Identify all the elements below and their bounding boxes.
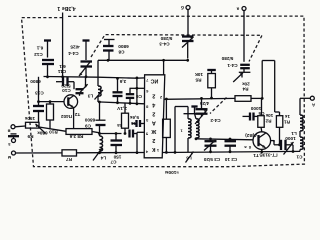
svg-text:5/280: 5/280 bbox=[160, 36, 172, 41]
svg-text:5,6к: 5,6к bbox=[129, 115, 139, 120]
coupling capacitor 68 bbox=[117, 123, 137, 137]
wire T2 base bbox=[37, 100, 64, 103]
rail right of IC bbox=[162, 151, 300, 152]
IC pin numbers bbox=[145, 78, 162, 155]
terminal left 1 bbox=[7, 125, 15, 134]
note 100mV bbox=[165, 170, 179, 175]
inductor L1 bbox=[291, 115, 303, 137]
svg-text:R2: R2 bbox=[265, 119, 271, 124]
svg-text:Т1: Т1 bbox=[253, 153, 259, 158]
terminal a top bbox=[236, 6, 246, 11]
wire to R7 bbox=[16, 152, 63, 154]
wire into IC top bbox=[163, 60, 165, 75]
svg-text:20к: 20к bbox=[242, 82, 250, 87]
svg-text:R7: R7 bbox=[66, 157, 72, 162]
IF transformer primary bbox=[174, 107, 191, 154]
resistor right of IC bbox=[163, 98, 171, 154]
resistor R7 bbox=[62, 150, 77, 162]
svg-text:б: б bbox=[181, 5, 184, 11]
wire supply down bbox=[62, 13, 64, 77]
resistor R6 bbox=[122, 103, 139, 133]
terminal left 3 bbox=[7, 151, 15, 160]
wire osc row bbox=[100, 133, 122, 135]
svg-text:6800: 6800 bbox=[84, 118, 95, 123]
IF transformer secondary bbox=[184, 107, 202, 141]
terminal A antenna bbox=[310, 96, 315, 107]
trimmer C4-1 bbox=[221, 56, 250, 82]
svg-text:С10: С10 bbox=[62, 88, 71, 93]
svg-text:С4-4: С4-4 bbox=[68, 51, 79, 56]
svg-text:68: 68 bbox=[117, 123, 122, 128]
svg-text:м: м bbox=[7, 155, 11, 160]
capacitor C7 bbox=[110, 132, 122, 164]
svg-text:С9: С9 bbox=[85, 124, 91, 129]
wire base row T1 bbox=[196, 139, 253, 140]
svg-text:10К: 10К bbox=[195, 72, 203, 77]
wire R9 to R8 bbox=[39, 127, 66, 131]
svg-text:R8 3,6: R8 3,6 bbox=[69, 134, 83, 139]
resistor R5 bbox=[195, 70, 216, 99]
label (V2)4 bbox=[245, 133, 257, 138]
svg-text:Т2: Т2 bbox=[74, 112, 80, 117]
wire to R9 bbox=[15, 125, 26, 128]
potentiometer R9 bbox=[24, 116, 45, 139]
svg-text:С4-2: С4-2 bbox=[210, 118, 221, 123]
capacitor C9 electrolytic bbox=[84, 102, 105, 135]
svg-text:С2 10: С2 10 bbox=[224, 157, 237, 162]
transformer tune arrow bbox=[186, 152, 194, 163]
svg-text:ИС: ИС bbox=[151, 78, 159, 84]
node bus joints bbox=[46, 75, 87, 78]
svg-text:С11: С11 bbox=[57, 69, 66, 74]
svg-text:5/20: 5/20 bbox=[61, 84, 71, 89]
wire upper bus bbox=[98, 59, 189, 77]
svg-text:R9: R9 bbox=[27, 134, 33, 139]
wire R7 to rail bbox=[77, 152, 100, 154]
trimmer C3 bbox=[203, 138, 220, 163]
svg-text:ГТ-313Б: ГТ-313Б bbox=[259, 153, 278, 158]
svg-text:150к: 150к bbox=[24, 116, 35, 121]
capacitor C8 bbox=[103, 40, 129, 61]
resistor R2 bbox=[258, 98, 273, 131]
svg-text:6,1: 6,1 bbox=[59, 64, 66, 69]
transistor T2 bbox=[64, 95, 78, 129]
transistor T1 bbox=[253, 132, 271, 153]
svg-text:L3: L3 bbox=[87, 94, 93, 99]
ground terminal left bbox=[8, 134, 19, 139]
inductor L3 bbox=[87, 77, 103, 102]
trimmer C4-3 bbox=[159, 36, 193, 59]
IC box K2ZhA242 bbox=[144, 75, 165, 158]
svg-text:С4-3: С4-3 bbox=[159, 42, 170, 47]
svg-text:150: 150 bbox=[113, 155, 121, 160]
svg-text:L1: L1 bbox=[291, 131, 297, 136]
wire IC out right bbox=[164, 97, 235, 100]
tie bar into IC bbox=[130, 77, 145, 104]
trimmer C10 bbox=[61, 77, 88, 96]
capacitor bypass A bbox=[113, 77, 127, 103]
svg-text:4/25: 4/25 bbox=[70, 45, 80, 50]
svg-text:С4-1: С4-1 bbox=[227, 63, 238, 68]
gang dashed link line bbox=[91, 35, 262, 114]
svg-text:R1: R1 bbox=[284, 120, 290, 125]
wire terminal a down bbox=[243, 11, 245, 62]
svg-text:≈100м: ≈100м bbox=[165, 170, 179, 175]
resistor R1 bbox=[276, 114, 290, 146]
svg-text:R5: R5 bbox=[195, 78, 201, 83]
svg-text:5/280: 5/280 bbox=[221, 56, 233, 61]
svg-text:6800: 6800 bbox=[118, 44, 129, 49]
svg-text:С12: С12 bbox=[34, 52, 43, 57]
svg-text:П402: П402 bbox=[61, 114, 73, 119]
terminal left 2 bbox=[8, 139, 16, 148]
svg-text:С13: С13 bbox=[35, 91, 44, 96]
wire lower bus bbox=[44, 77, 145, 79]
label T1 GT-313 bbox=[244, 139, 278, 158]
small capacitor at pin3 bbox=[132, 120, 144, 127]
wire terminal b down bbox=[187, 10, 189, 37]
svg-text:3,6: 3,6 bbox=[119, 79, 126, 84]
svg-text:R4: R4 bbox=[242, 86, 248, 91]
capacitor C2 bbox=[224, 138, 237, 162]
svg-text:а: а bbox=[236, 6, 239, 11]
resistor R10 bbox=[37, 102, 58, 136]
label T2 P402 bbox=[61, 112, 81, 119]
svg-text:1к: 1к bbox=[284, 114, 290, 119]
wire antenna to L1 bbox=[300, 98, 310, 115]
resistor R4 bbox=[235, 61, 280, 116]
svg-text:1000: 1000 bbox=[250, 106, 261, 111]
capacitor C11 bbox=[56, 64, 74, 89]
capacitor C6 bbox=[126, 88, 142, 103]
wire rail to IC pin4 bbox=[98, 151, 144, 154]
svg-text:в: в bbox=[7, 129, 10, 134]
svg-text:С6: С6 bbox=[136, 94, 142, 99]
terminal b top bbox=[181, 5, 190, 11]
svg-text:С1: С1 bbox=[296, 155, 302, 160]
wire to IC pin8 bbox=[98, 101, 144, 106]
svg-text:С8: С8 bbox=[118, 50, 124, 55]
inductor L4 variable bbox=[93, 134, 106, 161]
trimmer C1 bbox=[271, 136, 303, 160]
supply label 4,3V bbox=[57, 5, 75, 11]
inductor L2 bbox=[300, 137, 303, 151]
svg-text:С7: С7 bbox=[110, 160, 116, 165]
capacitor C12 bbox=[34, 46, 54, 77]
trimmer C4-4 bbox=[68, 45, 92, 77]
svg-text:6,1: 6,1 bbox=[36, 46, 43, 51]
svg-text:R10: R10 bbox=[49, 130, 58, 135]
ground C4-4 bbox=[83, 41, 90, 61]
ground C12 bbox=[44, 41, 51, 58]
capacitor C5 feedthrough bbox=[243, 106, 265, 121]
capacitor C13 bbox=[30, 77, 44, 123]
svg-text:L4: L4 bbox=[100, 156, 106, 161]
svg-text:10к: 10к bbox=[265, 113, 273, 118]
trimmer C4-2 bbox=[195, 97, 221, 124]
svg-text:4,3Ве 1: 4,3Ве 1 bbox=[57, 5, 75, 11]
dashed enclosure border bbox=[22, 16, 305, 167]
svg-text:С3 5/20: С3 5/20 bbox=[203, 157, 220, 162]
resistor R8 bbox=[66, 129, 100, 140]
label 2,1V bbox=[116, 106, 127, 111]
node L4 top bbox=[98, 132, 126, 135]
wire to IC pin5 bbox=[136, 132, 145, 154]
